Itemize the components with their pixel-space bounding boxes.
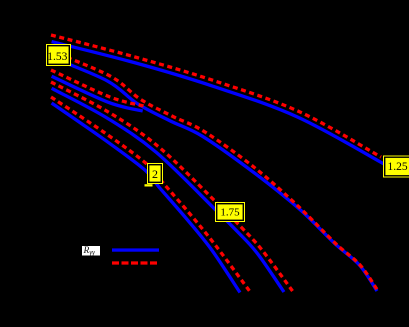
svg-text:1.53: 1.53 xyxy=(47,51,67,63)
svg-text:1.25: 1.25 xyxy=(387,161,407,173)
svg-text:1.75: 1.75 xyxy=(220,207,240,219)
svg-text:2: 2 xyxy=(152,167,158,181)
